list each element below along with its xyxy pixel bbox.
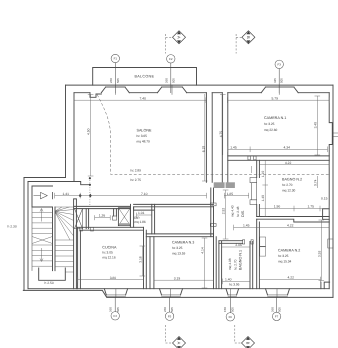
svg-text:7.10: 7.10 [141,192,148,196]
svg-text:1.40: 1.40 [261,195,265,202]
svg-text:3.40: 3.40 [313,122,317,129]
svg-text:1.90: 1.90 [274,205,281,209]
svg-text:F3: F3 [278,63,282,67]
svg-text:DIS.: DIS. [241,210,245,217]
svg-text:1.10: 1.10 [261,171,265,178]
svg-text:F6: F6 [229,315,233,319]
svg-text:hc 2.70: hc 2.70 [233,259,237,270]
svg-text:3.53: 3.53 [317,251,321,258]
svg-text:hc 3.25: hc 3.25 [172,246,183,250]
svg-text:4.50: 4.50 [87,128,91,135]
svg-text:260: 260 [109,307,113,312]
svg-text:3.18: 3.18 [139,256,143,263]
svg-text:hc 3.25: hc 3.25 [264,122,275,126]
svg-text:F7: F7 [275,315,279,319]
svg-text:CAMERA N.1: CAMERA N.1 [264,116,286,120]
svg-text:hc 3.05: hc 3.05 [102,251,113,255]
svg-text:CUCINA: CUCINA [102,246,117,250]
svg-text:A: A [177,342,182,345]
svg-text:0.74: 0.74 [314,179,318,186]
svg-text:mq 22.60: mq 22.60 [264,128,278,132]
svg-text:4.22: 4.22 [288,276,295,280]
svg-text:BAGNO N.2: BAGNO N.2 [282,178,302,182]
svg-text:505: 505 [170,307,174,312]
svg-text:3.19: 3.19 [174,276,181,280]
svg-text:4.34: 4.34 [284,146,291,150]
svg-text:mq 1.86: mq 1.86 [134,220,146,224]
svg-text:1.26: 1.26 [99,214,106,218]
svg-text:505: 505 [116,78,120,83]
svg-text:1.45: 1.45 [243,224,250,228]
svg-text:mq 12.30: mq 12.30 [282,189,296,193]
svg-text:7.40: 7.40 [140,96,147,100]
svg-text:1.40: 1.40 [225,278,232,282]
svg-text:SALONE: SALONE [137,129,153,133]
svg-text:1.75: 1.75 [308,205,315,209]
svg-text:mq 48.79: mq 48.79 [137,140,151,144]
svg-text:4.22: 4.22 [287,224,294,228]
svg-text:505: 505 [280,78,284,83]
svg-text:260: 260 [270,307,274,312]
svg-text:mq 12.16: mq 12.16 [102,256,116,260]
svg-text:6.10: 6.10 [201,146,205,153]
svg-text:h 2.30: h 2.30 [8,224,17,228]
svg-text:BAGNO N.1: BAGNO N.1 [239,250,243,270]
svg-text:F1: F1 [114,57,118,61]
svg-text:B: B [246,36,251,39]
svg-text:hc 3.06: hc 3.06 [229,282,240,286]
svg-text:hc 2.89: hc 2.89 [131,168,142,172]
svg-text:505: 505 [116,307,120,312]
svg-text:F4: F4 [114,314,118,318]
svg-text:260: 260 [163,307,167,312]
svg-text:1.01: 1.01 [138,211,145,215]
svg-text:F2: F2 [169,57,173,61]
svg-text:CAMERA N.2: CAMERA N.2 [278,249,300,253]
svg-text:hc 3.25: hc 3.25 [278,254,289,258]
svg-text:150: 150 [223,307,227,312]
svg-text:A: A [177,36,182,39]
svg-text:5.79: 5.79 [272,96,279,100]
svg-text:B: B [246,342,251,345]
svg-text:505: 505 [231,307,235,312]
svg-text:505: 505 [171,78,175,83]
svg-text:h 2.50: h 2.50 [45,281,54,285]
svg-text:F5: F5 [168,314,172,318]
svg-text:1.45: 1.45 [230,146,237,150]
svg-text:1.85: 1.85 [227,192,234,196]
svg-text:1.41: 1.41 [63,192,70,196]
svg-text:345: 345 [273,78,277,83]
svg-text:BALCONE: BALCONE [135,75,155,79]
svg-text:hc 2.75: hc 2.75 [131,178,142,182]
svg-text:505: 505 [278,307,282,312]
svg-text:mq 13.59: mq 13.59 [172,252,186,256]
svg-text:hc 2.48: hc 2.48 [236,206,240,217]
svg-text:2.06: 2.06 [235,243,242,247]
svg-text:260: 260 [109,78,113,83]
svg-text:hc 2.70: hc 2.70 [282,183,293,187]
svg-text:mq 4.40: mq 4.40 [231,205,235,217]
svg-text:mq 4.08: mq 4.08 [228,258,232,270]
svg-text:4.75: 4.75 [219,131,223,138]
svg-text:0.15: 0.15 [321,197,328,201]
svg-text:hc 3.05: hc 3.05 [137,134,148,138]
svg-text:2.92: 2.92 [222,208,226,215]
svg-text:4.14: 4.14 [201,247,205,254]
svg-text:mq 15.34: mq 15.34 [278,260,292,264]
svg-text:CAMERA N.3: CAMERA N.3 [172,241,194,245]
svg-text:260: 260 [164,78,168,83]
svg-text:3.80: 3.80 [110,276,117,280]
svg-text:4.22: 4.22 [285,161,292,165]
